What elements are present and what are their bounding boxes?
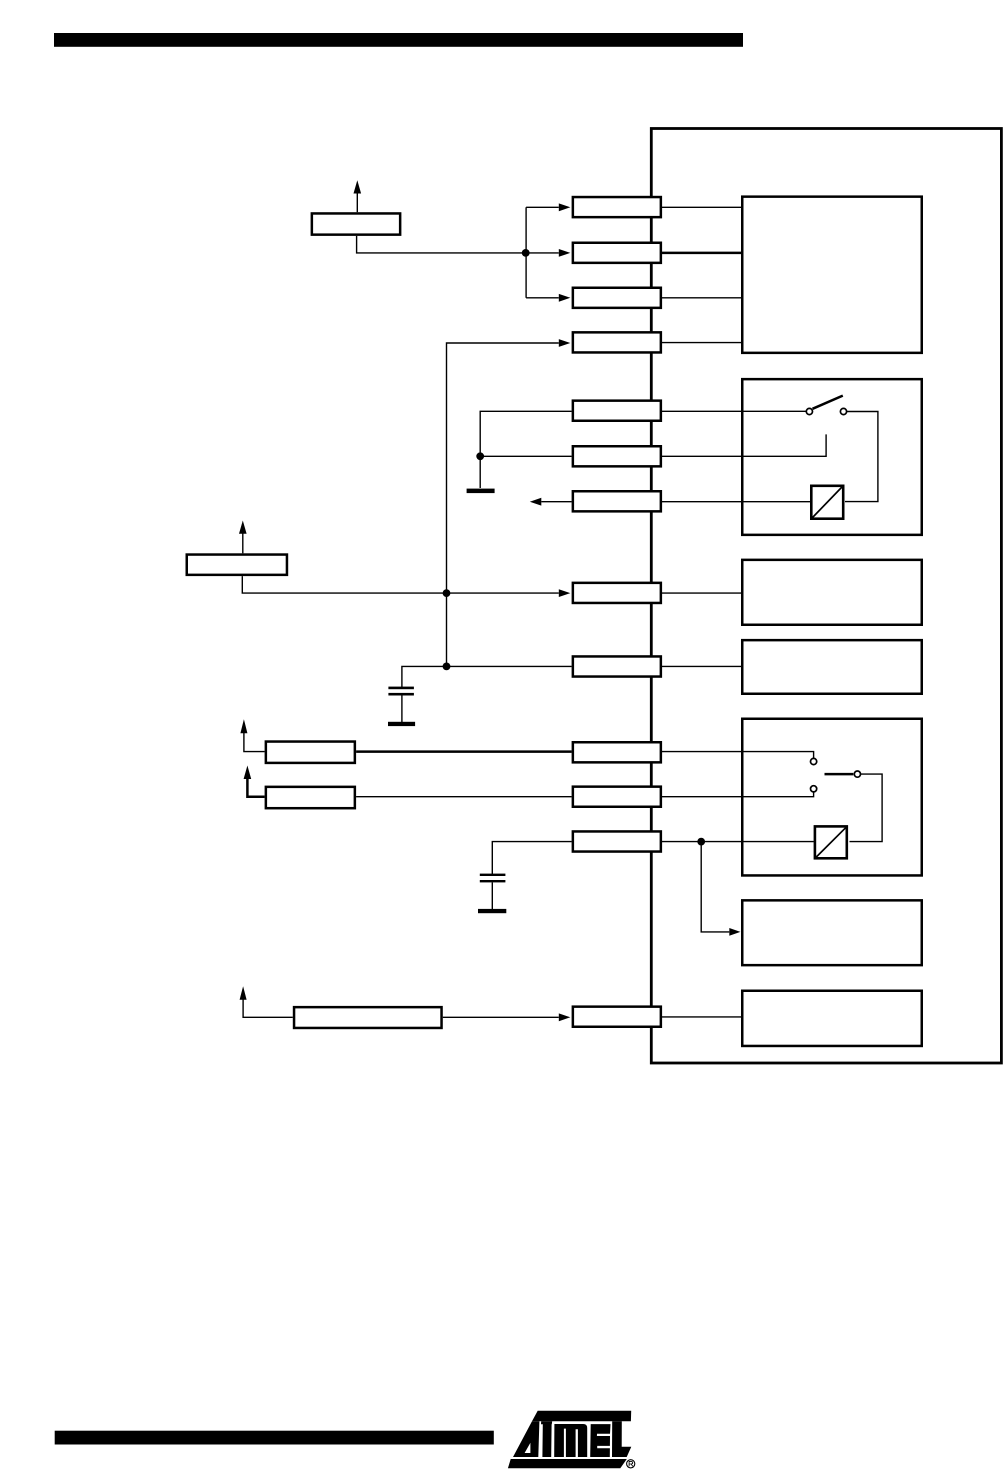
ADC input box xyxy=(294,1007,442,1028)
wire pin5 to switch S1 xyxy=(662,410,806,412)
ADC up arrow xyxy=(243,1000,293,1018)
VCC input box xyxy=(312,213,400,234)
wire pin5 to ground node xyxy=(480,411,571,456)
DAC1 box xyxy=(815,826,847,858)
ground below C2 xyxy=(478,909,506,913)
arrowhead into pin2 xyxy=(559,249,571,257)
block B3 xyxy=(742,560,922,625)
block B6 xyxy=(742,900,922,965)
pin box 5 xyxy=(573,401,661,421)
wire pin9 to B4 xyxy=(662,665,742,667)
RESET input box xyxy=(187,555,287,575)
node junction GND xyxy=(476,452,484,460)
pin box 11 xyxy=(573,787,661,807)
wire AREF to B6 arrow xyxy=(701,842,729,932)
pin box 12 xyxy=(573,831,661,851)
pin box 2 xyxy=(573,243,661,263)
wire pin6 control stub xyxy=(662,434,826,456)
block B4 xyxy=(742,640,922,694)
arrowhead into pin4 xyxy=(559,339,571,347)
arrowhead into pin8 xyxy=(559,589,571,597)
DAC2 box xyxy=(811,486,843,519)
capacitor C1 xyxy=(388,687,414,690)
wire pin3 to B1 xyxy=(662,297,742,299)
wire pin11 to switch S2 xyxy=(662,792,814,797)
wire ground node to pin6 xyxy=(480,455,571,457)
wire S2 to DAC1 xyxy=(850,774,883,842)
Atmel logo letter T xyxy=(541,1421,552,1457)
pin box 4 xyxy=(573,332,661,352)
switch S2 contact c xyxy=(811,786,817,792)
pin box 9 xyxy=(573,656,661,676)
switch S2 contact b xyxy=(854,771,860,777)
node junction C1 xyxy=(443,663,451,671)
node junction AREF xyxy=(697,838,705,846)
switch S1 contact a xyxy=(806,408,812,414)
node junction RESET xyxy=(443,589,451,597)
XTAL2 up arrow (bold) xyxy=(247,779,264,797)
wire RESET box to pin8 xyxy=(242,576,559,593)
wire branch to pin1 xyxy=(526,206,559,208)
Atmel logo bottom bar xyxy=(508,1459,627,1468)
block B7 xyxy=(742,991,922,1046)
Atmel logo letter A xyxy=(513,1421,539,1457)
switch S2 contact a xyxy=(811,758,817,764)
ground below C1 xyxy=(388,722,415,726)
wire ADC box to pin13 xyxy=(443,1016,559,1018)
pin box 7 xyxy=(573,491,661,511)
pin box 10 xyxy=(573,742,661,762)
pin box 13 xyxy=(573,1007,661,1027)
wire C1 corner to pin9 xyxy=(402,666,572,687)
switch S1 blade xyxy=(813,396,843,409)
wire pin12 to DAC1 xyxy=(662,841,814,843)
Atmel logo letter E xyxy=(590,1424,610,1457)
XTAL2 input box xyxy=(266,787,355,808)
wire pin12 to C2 xyxy=(492,842,571,874)
pin box 6 xyxy=(573,446,661,466)
wire long vertical to pin4 xyxy=(447,343,559,666)
XTAL1 input box xyxy=(266,742,355,763)
Atmel logo letter M xyxy=(554,1424,587,1457)
wire branch to pin3 xyxy=(526,297,559,299)
bottom rule bar xyxy=(55,1431,494,1445)
wire pin7 to DAC2 xyxy=(662,501,810,503)
wire VCC box to junction xyxy=(357,236,559,253)
wire pin4 to B1 xyxy=(662,342,742,344)
wire pin10 to switch S2 xyxy=(662,752,814,759)
XTAL1 up arrow xyxy=(244,733,265,752)
node junction VCC xyxy=(522,249,530,257)
Atmel registered mark xyxy=(627,1460,635,1468)
wire S1 to DAC2 xyxy=(845,412,878,502)
switch S1 contact b xyxy=(840,408,846,414)
block B1 xyxy=(742,197,922,353)
block B2 oscillator xyxy=(742,379,922,535)
wire pin8 to B3 xyxy=(662,592,742,594)
Atmel logo top bar xyxy=(532,1411,631,1422)
top rule bar xyxy=(54,33,743,47)
wire XTAL2 to pin11 xyxy=(356,796,571,798)
VCC up arrow xyxy=(356,193,358,212)
wire pin1 to B1 xyxy=(662,206,742,208)
block B5 comparator xyxy=(742,719,922,876)
wire XTAL1 to pin10 (bold) xyxy=(356,750,571,753)
switch S2 blade xyxy=(825,773,854,776)
wire pin13 to B7 xyxy=(662,1016,742,1018)
Atmel logo letter L xyxy=(612,1421,631,1457)
RESET up arrow xyxy=(242,533,244,553)
capacitor C2 xyxy=(480,874,506,876)
pin box 8 xyxy=(573,583,661,603)
IC outline U1 xyxy=(651,129,1001,1064)
ground symbol GND1 xyxy=(479,456,481,488)
pin box 1 xyxy=(573,197,661,217)
pin box 3 xyxy=(573,288,661,308)
wire pin2 to B1 (bold) xyxy=(662,252,742,255)
wire junction branch vertical xyxy=(525,207,527,297)
wire pin7 output arrow xyxy=(541,501,571,503)
